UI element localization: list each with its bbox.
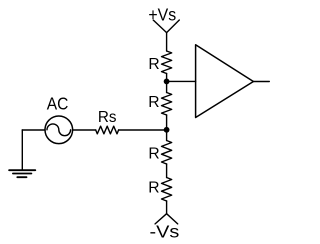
wire Rs to node B xyxy=(119,129,167,131)
resistor R4 xyxy=(162,178,172,202)
resistor R1 xyxy=(162,51,172,74)
svg-text:R: R xyxy=(148,146,159,163)
+Vs supply symbol xyxy=(153,20,179,33)
svg-text:R: R xyxy=(148,180,159,197)
resistor R3 xyxy=(162,141,172,165)
node A junction xyxy=(164,79,170,85)
-Vs supply symbol xyxy=(155,214,178,224)
wire node A to op-amp input xyxy=(167,80,196,82)
AC source V1 xyxy=(45,116,73,144)
svg-text:+Vs: +Vs xyxy=(148,5,176,25)
op-amp U1 xyxy=(196,45,254,118)
wire R3 to R4 xyxy=(166,164,168,178)
resistor R2 xyxy=(162,93,172,116)
svg-text:R: R xyxy=(148,56,159,73)
svg-text:AC: AC xyxy=(47,93,69,113)
wire R4 to -Vs xyxy=(166,201,168,214)
wire AC source to Rs xyxy=(73,129,96,131)
wire op-amp output xyxy=(253,81,269,83)
svg-text:Rs: Rs xyxy=(98,109,117,126)
wire +Vs to R1 xyxy=(166,33,168,51)
ground xyxy=(9,130,35,177)
svg-text:-Vs: -Vs xyxy=(150,222,180,239)
node B junction xyxy=(164,127,170,133)
wire R1 to R2 xyxy=(166,74,168,93)
wire R2 to R3 xyxy=(166,115,168,141)
resistor Rs xyxy=(96,126,119,134)
wire ground to AC source xyxy=(22,129,45,131)
svg-text:R: R xyxy=(148,94,159,111)
